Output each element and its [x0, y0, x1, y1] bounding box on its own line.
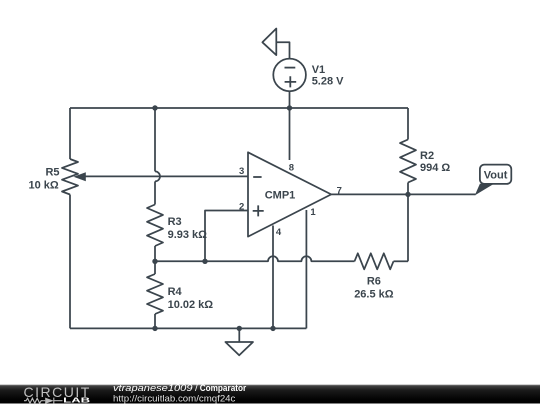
- svg-text:26.5 kΩ: 26.5 kΩ: [354, 289, 394, 301]
- svg-text:R6: R6: [367, 276, 381, 288]
- svg-text:CMP1: CMP1: [265, 189, 296, 201]
- svg-text:10.02 kΩ: 10.02 kΩ: [168, 299, 214, 311]
- svg-text:R4: R4: [168, 286, 183, 298]
- svg-text:7: 7: [337, 185, 342, 196]
- svg-text:R5: R5: [45, 166, 59, 178]
- svg-text:V1: V1: [312, 64, 325, 76]
- svg-text:http://circuitlab.com/cmqf24c: http://circuitlab.com/cmqf24c: [113, 393, 236, 404]
- svg-text:R2: R2: [420, 150, 434, 162]
- svg-text:R3: R3: [168, 216, 182, 228]
- svg-text:Vout: Vout: [484, 169, 508, 181]
- svg-text:8: 8: [289, 162, 294, 173]
- svg-text:LAB: LAB: [63, 396, 91, 405]
- svg-text:3: 3: [239, 166, 244, 177]
- svg-text:1: 1: [310, 207, 316, 218]
- svg-text:2: 2: [239, 201, 244, 212]
- svg-text:5.28 V: 5.28 V: [312, 76, 344, 88]
- svg-text:9.93 kΩ: 9.93 kΩ: [168, 229, 208, 241]
- svg-text:4: 4: [276, 227, 282, 238]
- svg-text:994 Ω: 994 Ω: [420, 162, 450, 174]
- svg-text:10 kΩ: 10 kΩ: [28, 179, 58, 191]
